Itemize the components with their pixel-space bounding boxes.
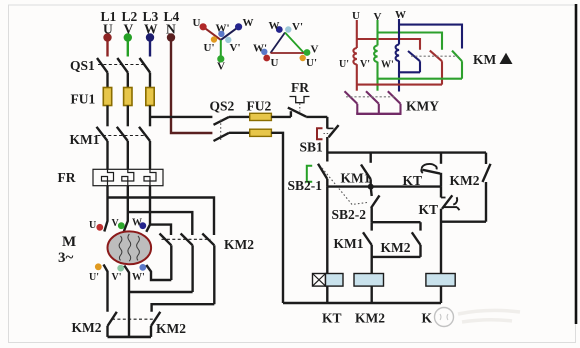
wire U-prime coil bottom	[356, 64, 358, 91]
node L3 terminal	[146, 33, 154, 56]
coil KT box with X	[313, 274, 326, 287]
svg-text:KM: KM	[473, 52, 497, 67]
svg-text:QS2: QS2	[210, 99, 235, 114]
contact KM2 interlock normally-closed	[483, 153, 491, 222]
motor terminal dot U-prime	[95, 263, 102, 270]
delta dot U	[263, 55, 270, 62]
contact KT delayed normally-closed	[441, 187, 460, 274]
wire V phase green vertical	[376, 20, 378, 46]
delta dot V-prime	[285, 26, 291, 32]
wire W-prime coil bottom	[398, 61, 400, 92]
switch QS2 pole 2	[214, 133, 250, 141]
svg-text:3~: 3~	[58, 250, 74, 266]
CONTROL-SECTION	[214, 97, 521, 327]
wire FU2-2 to left rail	[271, 133, 283, 303]
motor winding squiggle 2	[128, 234, 131, 261]
wire FR to motor U	[104, 186, 107, 232]
FR heater element 2	[122, 169, 134, 185]
wire FU2-1 to FR contact	[271, 116, 291, 118]
VECTOR-DIAGRAMS	[200, 23, 311, 62]
delta dot V	[304, 49, 311, 56]
svg-text:SB2-2: SB2-2	[332, 207, 367, 222]
svg-text:V: V	[311, 44, 319, 56]
wire KM1 coil to bus	[440, 286, 442, 303]
wire fuse to KM1 col1	[106, 106, 108, 127]
coil KT blue box	[326, 274, 344, 287]
motor winding squiggle 3	[137, 236, 140, 260]
switch QS1 pole 2	[117, 58, 128, 88]
KMY star bar	[356, 113, 401, 115]
contact KT on-delay normally-open	[421, 153, 441, 187]
svg-text:U': U'	[306, 57, 317, 69]
wire motor W-prime to KM2 pole1	[146, 265, 171, 280]
star point bar	[108, 336, 152, 339]
svg-text:V': V'	[112, 272, 122, 283]
contactor KM1 main pole 2	[117, 127, 128, 170]
contactor KM1 main pole 1	[97, 127, 108, 170]
KM-delta linkage dashed	[411, 55, 458, 57]
pushbutton SB2-2 normally-closed	[371, 187, 380, 223]
contactor KMY pole 2	[366, 91, 379, 114]
KM-delta switch 3 blade green	[378, 51, 463, 79]
contactor KMY pole 1	[345, 91, 358, 114]
wire fuse to KM1 col2	[127, 106, 129, 127]
star contact left blade	[108, 312, 117, 337]
svg-text:V': V'	[360, 59, 370, 70]
svg-text:V: V	[112, 218, 120, 229]
wire mid horizontal rung	[327, 185, 441, 187]
motor terminal dot V-prime	[117, 265, 124, 272]
wire W phase navy vertical	[398, 19, 400, 45]
svg-text:M: M	[62, 234, 76, 250]
node L2 terminal	[124, 33, 132, 56]
svg-text:W: W	[395, 9, 406, 21]
wire V branch to KM2 blade2	[128, 212, 193, 235]
QS1 linkage dashed	[98, 64, 146, 66]
svg-text:V': V'	[230, 42, 241, 54]
svg-text:U': U'	[89, 272, 99, 283]
contact KM1 self-hold normally-open	[361, 153, 371, 187]
fuse FU1-2	[124, 88, 132, 106]
svg-text:KT: KT	[419, 202, 439, 217]
watermark circle	[435, 308, 454, 327]
svg-text:K: K	[422, 311, 433, 326]
fuse FU1-3	[146, 88, 154, 106]
wire rail down to SB1	[326, 117, 328, 129]
contactor KM2 delta pole 1	[160, 234, 172, 281]
delta dot W	[276, 26, 283, 33]
star dot U-prime	[211, 36, 217, 42]
svg-text:V: V	[124, 22, 134, 37]
star diagram line V	[220, 40, 222, 59]
contactor KMY pole 3	[388, 91, 401, 114]
wire V branch to KM-delta sw2	[378, 33, 443, 50]
star contacts linkage dashed	[112, 318, 155, 320]
motor terminal dot W	[139, 222, 146, 229]
FR heater element 1	[102, 169, 114, 185]
motor terminal dot V	[118, 222, 125, 229]
svg-text:KT: KT	[403, 173, 423, 188]
node L4 terminal	[167, 33, 175, 41]
KM1 linkage dashed	[98, 135, 147, 137]
wire parallel top rung	[372, 221, 421, 223]
svg-text:KM1: KM1	[70, 132, 100, 147]
KM-delta switch 2 blade red	[357, 51, 442, 85]
star diagram line W	[221, 27, 239, 40]
svg-text:V': V'	[292, 21, 303, 33]
wire fuse to KM1 col3	[149, 106, 151, 127]
star contact right blade	[151, 312, 160, 337]
wire rail down to KT coil	[326, 187, 328, 274]
svg-text:W': W'	[132, 272, 145, 283]
switch QS2 pole 1	[214, 117, 250, 125]
svg-text:KM2: KM2	[381, 240, 411, 255]
star dot U	[200, 23, 207, 30]
svg-text:W: W	[269, 20, 280, 32]
junction dot	[368, 184, 374, 190]
wire FR to motor V	[124, 186, 128, 232]
svg-text:KM2: KM2	[72, 320, 102, 335]
wire U phase red vertical	[356, 20, 358, 48]
star diagram line U	[203, 27, 221, 40]
watermark faint scribble	[458, 310, 520, 322]
motor terminal dot W-prime	[139, 264, 146, 271]
winding coil W-prime	[396, 45, 399, 62]
svg-text:FU1: FU1	[71, 92, 96, 107]
svg-text:W: W	[144, 22, 158, 37]
motor terminal dot U	[96, 224, 103, 231]
svg-text:FU2: FU2	[247, 99, 272, 114]
svg-text:W': W'	[216, 23, 230, 35]
svg-text:U': U'	[204, 42, 215, 54]
svg-text:QS1: QS1	[70, 58, 95, 73]
svg-text:W: W	[243, 17, 254, 29]
contactor KM2 delta pole 3	[202, 234, 214, 305]
svg-text:U': U'	[339, 59, 349, 70]
svg-text:KM2: KM2	[156, 321, 186, 336]
wire KM2-NC bottom to right branch	[441, 220, 486, 222]
star dot W-prime	[218, 31, 224, 37]
svg-text:SB1: SB1	[300, 140, 324, 155]
fuse FU2-1	[250, 113, 272, 120]
QS2 linkage dotted	[220, 120, 222, 141]
SB1 dotted link	[324, 133, 331, 135]
contactor KM1 main pole 3	[139, 127, 150, 170]
winding coil V-prime	[374, 46, 377, 63]
star dot V	[217, 55, 224, 62]
coil KM2 blue box	[354, 274, 384, 287]
delta triangle edge right	[285, 33, 304, 54]
contact KM2 normally-open mid	[412, 222, 421, 257]
svg-text:W: W	[132, 218, 142, 229]
FR heater element 3	[144, 169, 156, 185]
contact KM1 normally-open mid	[363, 222, 372, 273]
WINDING-DIAGRAM	[345, 19, 463, 114]
FR overload operator symbol	[290, 97, 310, 103]
wire top branch horizontal	[327, 151, 486, 153]
pushbutton SB1 normally-closed	[327, 125, 338, 161]
wire U branch to KM-delta sw1	[357, 39, 420, 50]
bottom bus wire	[283, 302, 441, 304]
wire W-phase branch to control	[150, 116, 212, 118]
wire motor U-prime down	[104, 265, 108, 312]
wire KT coil to bus	[326, 286, 328, 303]
svg-text:N: N	[166, 22, 176, 37]
svg-text:KM2: KM2	[224, 237, 254, 252]
wire W branch to KM-delta sw3	[399, 25, 462, 49]
delta triangle edge left	[271, 33, 286, 54]
svg-text:SB2-1: SB2-1	[288, 178, 323, 193]
pushbutton SB2-1 normally-open	[318, 164, 327, 187]
node L1 terminal	[103, 33, 111, 56]
delta dot W-prime	[261, 49, 267, 55]
svg-text:KM2: KM2	[450, 173, 480, 188]
svg-text:KM1: KM1	[341, 171, 371, 186]
SB1 button bracket	[317, 128, 323, 139]
contact FR normally-closed	[288, 108, 328, 117]
star dot V-prime	[225, 37, 231, 43]
svg-text:U: U	[271, 57, 279, 69]
coil KM1 blue box	[426, 274, 455, 287]
svg-text:KMY: KMY	[406, 99, 439, 114]
svg-text:U: U	[193, 17, 201, 29]
label KM-delta	[473, 52, 513, 67]
switch QS1 pole 3	[140, 58, 151, 88]
svg-text:W': W'	[253, 43, 267, 55]
SB2 linkage dotted path	[322, 168, 367, 205]
contactor KM2 delta pole 2	[181, 234, 193, 293]
svg-text:FR: FR	[58, 170, 76, 185]
switch QS1 pole 1	[97, 58, 108, 88]
POWER-SECTION	[93, 33, 214, 337]
delta triangle edge bottom	[271, 52, 305, 54]
svg-text:U: U	[352, 10, 360, 22]
svg-text:FR: FR	[291, 80, 309, 95]
wire motor V-prime down	[124, 266, 129, 337]
wire U branch to KM2 blade3	[108, 198, 215, 236]
KM2 delta linkage dashed	[162, 238, 211, 240]
motor M circle	[108, 231, 152, 264]
svg-text:W': W'	[381, 60, 394, 71]
fuse FU2-2	[250, 129, 272, 136]
star dot W	[235, 23, 242, 30]
fuse FU1-1	[103, 88, 111, 106]
svg-text:U: U	[103, 22, 113, 37]
svg-text:KM1: KM1	[334, 236, 364, 251]
svg-text:V: V	[217, 61, 225, 73]
svg-text:KM2: KM2	[355, 311, 385, 326]
wire N line L4 to QS2	[171, 40, 212, 133]
thermal relay FR box	[93, 169, 163, 185]
svg-text:V: V	[374, 11, 382, 23]
KMY linkage dashed	[346, 96, 396, 98]
winding coil U-prime	[353, 48, 356, 65]
wire parallel bottom rung	[372, 256, 421, 258]
motor winding squiggle 1	[119, 236, 122, 260]
wire V-prime branch to KM2 pole2	[129, 291, 193, 293]
KM-delta switch 1 blade navy	[399, 51, 420, 72]
wire KM2 pole3 to star contact	[152, 304, 215, 312]
svg-text:U: U	[89, 220, 96, 231]
FR operator dotted link	[299, 104, 301, 112]
wire KM2 coil to bus	[371, 286, 373, 303]
svg-text:KT: KT	[322, 311, 342, 326]
delta dot U-prime	[300, 55, 306, 61]
SB2-1 button bracket	[307, 166, 312, 182]
wire V-prime coil bottom	[376, 62, 378, 91]
wire FR to motor W	[146, 186, 150, 232]
wire W branch to KM2 blade1	[150, 225, 171, 235]
